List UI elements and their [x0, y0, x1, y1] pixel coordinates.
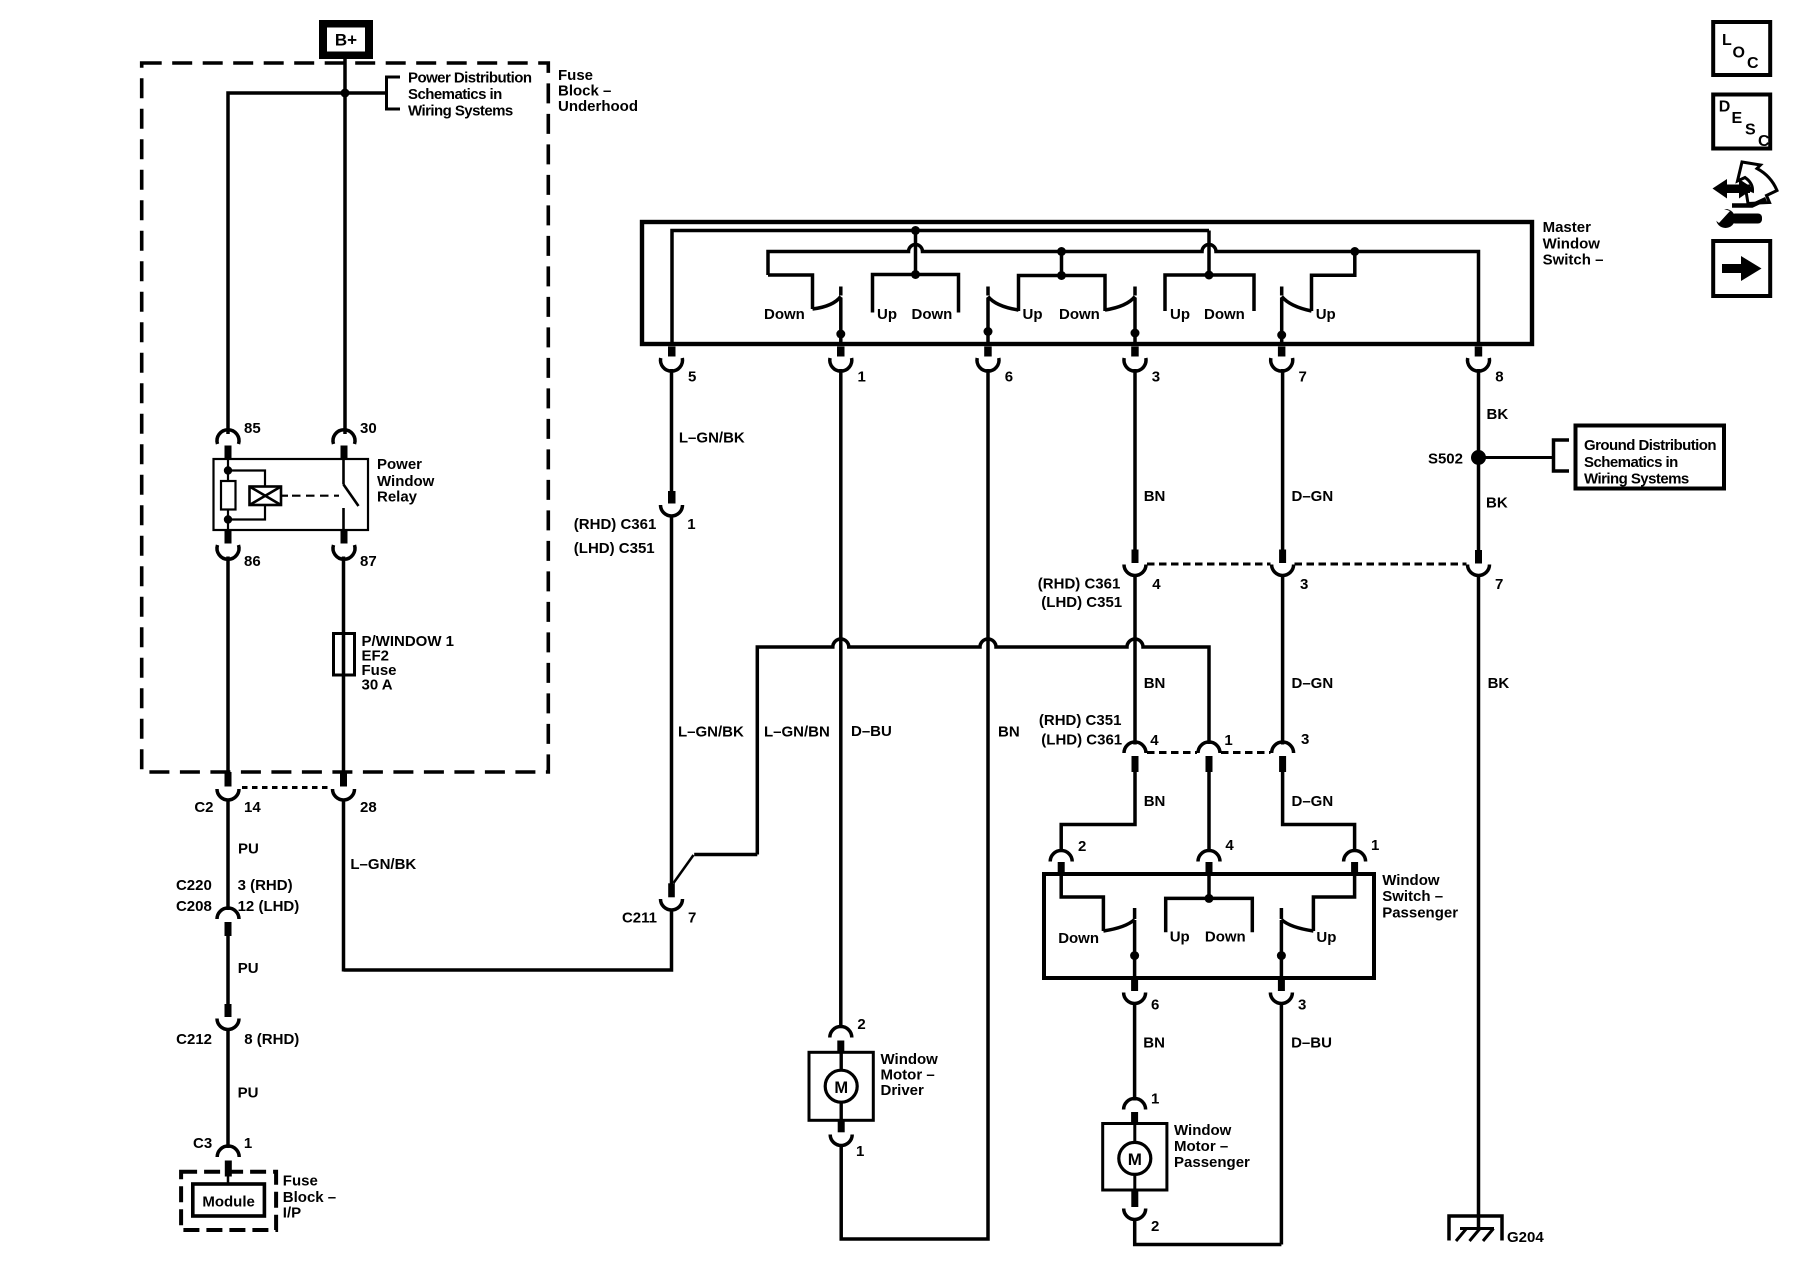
svg-text:3: 3 [1300, 576, 1308, 593]
wire D-GN master pin7 down [1281, 369, 1285, 550]
window switch passenger box [1044, 874, 1374, 978]
icon DESC box [1713, 95, 1770, 151]
svg-text:Motor –: Motor – [881, 1067, 935, 1084]
label Power Window Relay [377, 456, 435, 506]
svg-text:BN: BN [1144, 793, 1166, 810]
window motor passenger box [1103, 1124, 1167, 1191]
svg-text:D–GN: D–GN [1292, 793, 1334, 810]
node coil top junction [224, 466, 232, 474]
svg-text:4: 4 [1225, 837, 1234, 854]
svg-text:E: E [1732, 110, 1743, 127]
window motor driver box [809, 1052, 873, 1120]
node junction at B+ feed [341, 89, 350, 98]
svg-text:Down: Down [912, 306, 953, 323]
motor M driver [825, 1052, 857, 1120]
svg-text:O: O [1733, 45, 1745, 62]
connector row2 C351 C361 pin 3 [1272, 731, 1310, 772]
wire bus line1 from pin 5 [672, 231, 1209, 345]
svg-text:PU: PU [238, 841, 259, 858]
label Fuse Block IP [283, 1172, 336, 1221]
connector passenger switch pin 2 [1050, 838, 1086, 874]
svg-text:7: 7 [688, 910, 696, 927]
connector master pin 8 [1467, 347, 1503, 386]
module box [193, 1184, 265, 1216]
switch SW1 Down driver [813, 287, 846, 345]
svg-text:BK: BK [1486, 495, 1508, 512]
svg-text:Driver: Driver [881, 1082, 925, 1099]
label C220 C208 3 RHD 12 LHD [176, 877, 299, 915]
contact throw for pin1 switch [768, 275, 813, 309]
wire D-GN between connector rows [1281, 577, 1285, 745]
svg-text:I/P: I/P [283, 1205, 301, 1222]
svg-text:(RHD) C361: (RHD) C361 [574, 516, 657, 533]
svg-text:D: D [1719, 99, 1731, 116]
wire passenger pin1 to throw [1313, 874, 1354, 931]
connector row C361 C351 pin 3 [1272, 550, 1309, 594]
connector passenger switch pin 3 [1270, 978, 1306, 1014]
contact bracket3 Up Down [1165, 275, 1254, 311]
svg-text:2: 2 [1151, 1218, 1159, 1235]
connector row2 C351 C361 pin 1 [1198, 732, 1233, 772]
icon repair double arrow [1713, 179, 1754, 199]
svg-text:87: 87 [360, 553, 377, 570]
icon next arrow box [1713, 241, 1770, 296]
svg-text:4: 4 [1150, 732, 1159, 749]
svg-text:Wiring Systems: Wiring Systems [408, 103, 513, 120]
svg-text:C2: C2 [194, 799, 213, 816]
svg-text:Relay: Relay [377, 489, 418, 506]
fuse block underhood dashed box [142, 63, 549, 772]
svg-text:Schematics in: Schematics in [408, 86, 502, 103]
connector C220 C208 [217, 908, 239, 936]
contact bracket1 Up Down [873, 275, 959, 313]
svg-text:C212: C212 [176, 1031, 212, 1048]
node on line1 [911, 226, 920, 235]
svg-text:(LHD) C361: (LHD) C361 [1041, 732, 1122, 749]
connector passenger motor pin 1 [1124, 1091, 1160, 1124]
svg-text:C: C [1747, 55, 1759, 72]
label RHD C361 LHD C351 row1 [1038, 576, 1122, 612]
motor M passenger [1119, 1124, 1151, 1191]
connector passenger switch pin 6 [1124, 978, 1160, 1014]
connector C211 pin 7 [622, 883, 696, 926]
label Window Motor Driver [881, 1051, 939, 1099]
connector row C361 C351 pin 7 [1468, 550, 1504, 593]
connector passenger switch pin 4 [1198, 837, 1234, 874]
label P/WINDOW 1 EF2 Fuse 30 A [362, 633, 455, 694]
svg-text:Block –: Block – [558, 83, 611, 100]
svg-text:C: C [1758, 133, 1770, 150]
wire row2 pin1 to passenger switch pin 4 [1207, 772, 1211, 851]
wire coil parallel branch [228, 471, 265, 487]
svg-text:3 (RHD): 3 (RHD) [238, 877, 293, 894]
connector row C361 C351 pin 4 [1124, 550, 1161, 594]
wire dashed connector row2 link [1147, 751, 1271, 754]
svg-text:M: M [834, 1079, 848, 1097]
svg-text:Power: Power [377, 456, 422, 473]
wire dashed connector row1 link [1147, 563, 1467, 566]
svg-text:Window: Window [1174, 1122, 1232, 1139]
svg-text:3: 3 [1152, 369, 1160, 386]
wire S502 to ground reference [1479, 456, 1554, 459]
svg-text:S502: S502 [1428, 451, 1463, 468]
svg-text:1: 1 [856, 1143, 864, 1160]
node passenger bracket center [1205, 894, 1214, 903]
relay switch contact [344, 459, 359, 530]
reference bracket Power Distribution [387, 77, 401, 109]
fuse F P/WINDOW 1 EF2 30A [334, 634, 355, 676]
wire passenger motor return loop [1135, 1220, 1282, 1245]
connector C2 pin 14 [194, 772, 261, 816]
svg-text:Passenger: Passenger [1174, 1154, 1250, 1171]
wire dotted connector link C2 [242, 786, 331, 789]
connector master pin 1 [830, 347, 866, 386]
connector master pin 6 [977, 347, 1013, 386]
svg-text:1: 1 [244, 1135, 252, 1152]
svg-text:BN: BN [1144, 488, 1166, 505]
svg-text:6: 6 [1151, 997, 1159, 1014]
relay coil branch wire [227, 459, 229, 481]
svg-text:1: 1 [858, 369, 866, 386]
switch passenger Down [1103, 908, 1139, 978]
svg-text:Window: Window [1543, 235, 1601, 252]
wire relay 86 down to C2 pin 14 [226, 557, 230, 773]
wire fuse C2 28 down to corner [342, 800, 346, 972]
splice S502 [1471, 450, 1486, 465]
wire line2 drop to bracket2 [1060, 252, 1064, 276]
connector C2 pin 28 [333, 772, 377, 816]
node bracket1 center [911, 270, 920, 279]
svg-text:2: 2 [1078, 838, 1086, 855]
master window switch box [642, 222, 1532, 344]
relay K box Power Window Relay [214, 459, 369, 530]
wire C3 into module [227, 1177, 230, 1185]
svg-text:8 (RHD): 8 (RHD) [244, 1031, 299, 1048]
icon repair wrench [1710, 205, 1762, 228]
labels switch positions passenger [1058, 929, 1336, 948]
label Fuse Block Underhood [558, 67, 638, 115]
wire branch L-GN/BN with hops to passenger feed [757, 639, 1209, 855]
wire passenger pin2 to throw [1061, 874, 1103, 931]
wire passenger pin4 to bracket [1207, 874, 1211, 898]
wire junction to left branch [228, 93, 387, 434]
connector pin 87 of relay [333, 530, 377, 570]
svg-text:7: 7 [1299, 369, 1307, 386]
svg-text:Up: Up [1170, 306, 1190, 323]
label Master Window Switch [1543, 219, 1604, 269]
wire resistor to bottom [227, 510, 229, 531]
svg-text:Up: Up [1023, 306, 1043, 323]
connector C3 pin 1 [193, 1135, 252, 1177]
wire C211 down and left to fuse output [344, 911, 672, 971]
svg-text:M: M [1128, 1150, 1142, 1169]
wire relay 87 down through fuse to C2 pin 28 [342, 557, 346, 773]
svg-text:Down: Down [1059, 306, 1100, 323]
wire D-BU passenger switch down [1280, 1005, 1284, 1245]
resistor inside relay [221, 481, 236, 510]
label RHD C351 LHD C361 row2 [1039, 712, 1122, 749]
svg-text:C3: C3 [193, 1135, 212, 1152]
svg-text:3: 3 [1301, 731, 1309, 748]
connector master pin 5 [661, 347, 697, 386]
svg-text:BN: BN [998, 724, 1020, 741]
svg-text:Schematics in: Schematics in [1584, 454, 1678, 471]
svg-text:S: S [1745, 122, 1756, 139]
svg-text:C208: C208 [176, 898, 212, 915]
svg-text:Power Distribution: Power Distribution [408, 70, 532, 87]
fuse block IP dashed box [181, 1172, 276, 1230]
svg-text:Module: Module [202, 1194, 255, 1211]
svg-text:4: 4 [1152, 576, 1161, 593]
svg-text:30 A: 30 A [362, 677, 393, 694]
svg-text:Down: Down [1205, 929, 1246, 946]
ground distribution reference box [1576, 426, 1725, 489]
svg-text:1: 1 [1224, 732, 1232, 749]
svg-text:BK: BK [1487, 406, 1509, 423]
svg-text:3: 3 [1298, 997, 1306, 1014]
svg-text:D–BU: D–BU [1291, 1035, 1332, 1052]
wire BN master pin3 down [1133, 369, 1137, 550]
wire branch jog into C211 [674, 855, 758, 884]
node bracket3 center [1205, 271, 1214, 280]
wire line1 drop to bracket1 [914, 231, 918, 275]
svg-text:PU: PU [238, 960, 259, 977]
connector C212 [176, 1004, 299, 1048]
svg-text:30: 30 [360, 420, 377, 437]
svg-text:Down: Down [1058, 930, 1099, 947]
wire D-GN row2 to passenger switch pin 1 [1283, 772, 1355, 851]
svg-text:BK: BK [1488, 675, 1510, 692]
switch SW6 Up driver [984, 287, 1019, 345]
svg-text:Ground Distribution: Ground Distribution [1584, 437, 1716, 454]
labels switch positions master [764, 306, 1336, 323]
svg-text:Fuse: Fuse [558, 67, 593, 84]
svg-text:2: 2 [857, 1016, 865, 1033]
wire B+ to junction and relay pin 30 [343, 59, 347, 434]
wire BK master pin8 down to S502 [1477, 369, 1481, 550]
svg-text:(LHD) C351: (LHD) C351 [574, 540, 655, 557]
svg-text:Passenger: Passenger [1382, 905, 1458, 922]
connector passenger switch pin 1 [1344, 837, 1380, 874]
svg-text:(RHD) C351: (RHD) C351 [1039, 712, 1122, 729]
wire PU lower segment [226, 1030, 230, 1148]
wire L-GN/BK to C211 [670, 517, 674, 885]
svg-text:L–GN/BK: L–GN/BK [678, 724, 744, 741]
svg-text:Up: Up [1170, 929, 1190, 946]
svg-text:L–GN/BN: L–GN/BN [764, 724, 830, 741]
label Power Distribution Schematics in Wiring Systems [408, 70, 532, 120]
connector pin 86 of relay [217, 530, 261, 570]
contact bracket2 Up Down [1019, 276, 1106, 312]
wire BN passenger switch to motor [1133, 1005, 1137, 1101]
svg-text:D–BU: D–BU [851, 723, 892, 740]
label Window Switch Passenger [1382, 872, 1458, 922]
svg-text:8: 8 [1495, 369, 1503, 386]
svg-text:Up: Up [1316, 929, 1336, 946]
wire line1 drop to bracket3 [1207, 231, 1211, 276]
wire BN between connector rows [1133, 577, 1137, 745]
svg-text:85: 85 [244, 420, 261, 437]
svg-text:Switch –: Switch – [1543, 252, 1604, 269]
connector C361 C351 pin 1 [574, 491, 696, 557]
svg-text:L–GN/BK: L–GN/BK [350, 856, 416, 873]
svg-text:14: 14 [244, 799, 261, 816]
wire D-BU master pin1 down to driver motor [839, 369, 843, 1028]
svg-text:7: 7 [1495, 576, 1503, 593]
label Ground Distribution Schematics in Wiring Systems [1584, 437, 1716, 488]
node bracket2 center [1057, 271, 1066, 280]
icon LOC box [1713, 22, 1770, 75]
node on line2 feeding bracket2 [1057, 247, 1066, 256]
svg-text:C220: C220 [176, 877, 212, 894]
node coil bottom junction [224, 515, 232, 523]
svg-text:12 (LHD): 12 (LHD) [238, 898, 300, 915]
wire BN row2 to passenger switch pin 2 [1061, 772, 1135, 851]
connector pin 85 of relay [217, 420, 261, 459]
svg-text:Wiring Systems: Wiring Systems [1584, 471, 1689, 488]
svg-text:Window: Window [377, 473, 435, 490]
svg-text:5: 5 [688, 369, 696, 386]
switch SW7 Up passenger [1277, 287, 1311, 345]
connector driver motor pin 1 [830, 1120, 864, 1160]
connector row2 C351 C361 pin 4 [1124, 732, 1159, 772]
svg-text:Switch –: Switch – [1382, 888, 1443, 905]
battery feed B+ [319, 20, 373, 59]
relay coil symbol [250, 487, 282, 506]
connector master pin 7 [1271, 347, 1307, 386]
svg-text:D–GN: D–GN [1292, 488, 1334, 505]
icon repair outline arrow [1738, 162, 1778, 204]
connector pin 30 of relay [333, 420, 377, 459]
relay actuator dashed link [281, 495, 339, 497]
wire PU from C2 14 down [226, 800, 230, 910]
svg-text:D–GN: D–GN [1292, 675, 1334, 692]
svg-text:BN: BN [1143, 1035, 1165, 1052]
svg-text:Motor –: Motor – [1174, 1138, 1228, 1155]
wire PU mid segment [226, 936, 230, 1004]
svg-text:(RHD) C361: (RHD) C361 [1038, 576, 1121, 593]
connector master pin 3 [1124, 347, 1160, 386]
svg-text:G204: G204 [1507, 1229, 1544, 1246]
switch passenger Up [1277, 908, 1314, 978]
svg-text:Fuse: Fuse [283, 1172, 318, 1189]
svg-text:6: 6 [1005, 369, 1013, 386]
svg-text:Up: Up [1316, 306, 1336, 323]
svg-text:Underhood: Underhood [558, 98, 638, 115]
ground G204 [1449, 1216, 1502, 1241]
icon repair underline stroke [1732, 199, 1766, 206]
svg-text:PU: PU [238, 1085, 259, 1102]
wire throw contact for pin7 switch [1312, 252, 1355, 312]
switch SW3 Down passenger [1105, 287, 1140, 345]
svg-text:C211: C211 [622, 910, 657, 927]
connector driver motor pin 2 [830, 1016, 866, 1053]
svg-text:Master: Master [1543, 219, 1592, 236]
svg-text:Up: Up [877, 306, 897, 323]
wire BK S502 down to G204 [1477, 577, 1481, 1229]
svg-text:Down: Down [1204, 306, 1245, 323]
node on line2 feeding pin7 throw [1350, 247, 1359, 256]
connector passenger motor pin 2 [1124, 1190, 1160, 1235]
reference bracket Ground Distribution [1554, 440, 1570, 471]
svg-text:1: 1 [1371, 837, 1379, 854]
svg-text:Window: Window [1382, 872, 1440, 889]
svg-text:86: 86 [244, 553, 261, 570]
svg-text:Down: Down [764, 306, 805, 323]
svg-text:BN: BN [1144, 675, 1166, 692]
svg-text:28: 28 [360, 799, 377, 816]
svg-text:1: 1 [687, 516, 695, 533]
wire bus line2 with hops [768, 245, 1479, 344]
wire driver motor return loop [841, 369, 988, 1239]
label Window Motor Passenger [1174, 1122, 1250, 1171]
svg-text:L: L [1722, 32, 1732, 49]
contact passenger bracket Up Down [1166, 898, 1253, 932]
svg-text:(LHD) C351: (LHD) C351 [1041, 594, 1122, 611]
svg-text:L–GN/BK: L–GN/BK [679, 430, 745, 447]
svg-text:1: 1 [1151, 1091, 1159, 1108]
wire L-GN/BK pin5 down [670, 369, 674, 491]
svg-text:Window: Window [881, 1051, 939, 1068]
svg-text:B+: B+ [335, 31, 357, 50]
